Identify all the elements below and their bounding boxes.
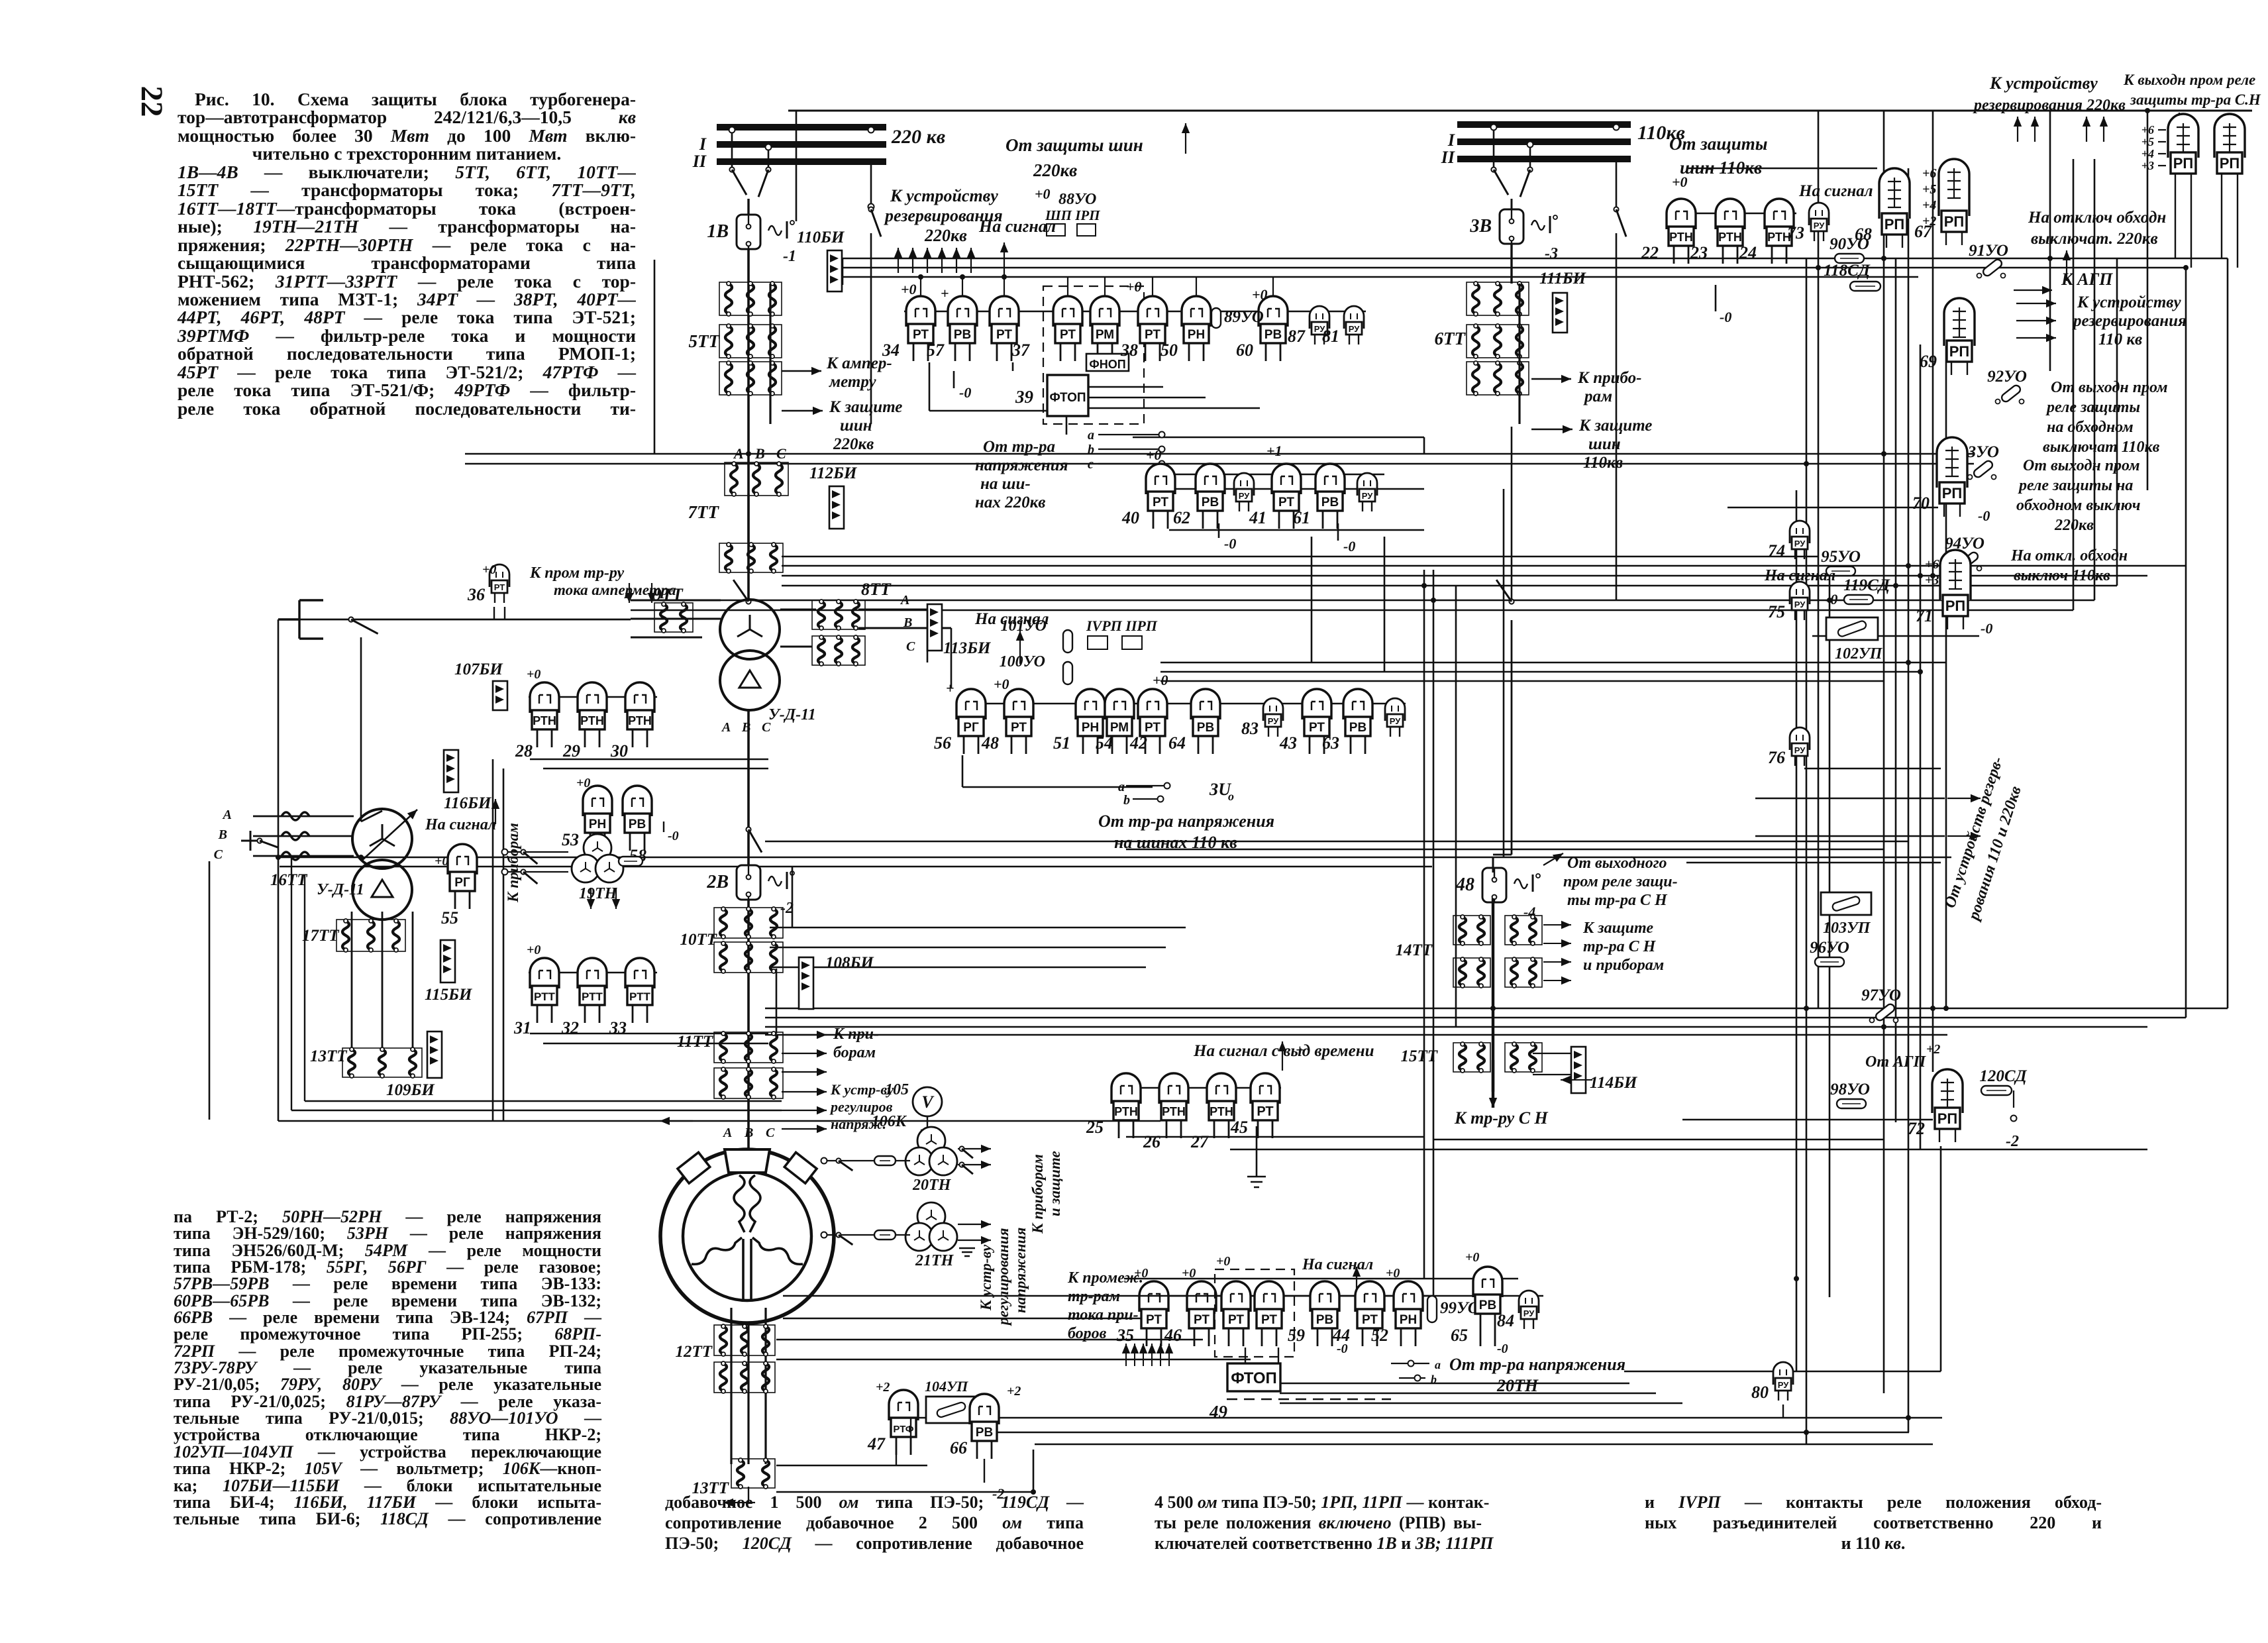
wire bus tap [1493,127,1495,167]
resistor 89УО 89УО [1211,308,1264,328]
svg-text:a: a [1118,780,1125,794]
disconnector below 6ТТ [1496,580,1514,604]
wire [788,110,2252,112]
relay 46РТ [1164,1281,1216,1346]
relay 50РН [1160,296,1211,361]
relay 69РП [1920,298,1975,375]
resistor [874,1156,896,1165]
arrow [1543,853,1563,865]
svg-text:+0: +0 [1153,672,1168,688]
svg-text:К промеж.: К промеж. [1067,1269,1143,1287]
arrow right [1543,921,1571,929]
svg-text:РТН: РТН [1162,1105,1186,1118]
svg-text:98УО: 98УО [1830,1081,1870,1098]
relay 28РТН [515,682,559,761]
resistor [619,857,643,866]
filter ФНОП ФНОП [1086,354,1129,371]
relay 74РУ [1768,521,1810,560]
svg-text:10ТТ: 10ТТ [680,931,717,949]
wire [1160,662,1946,664]
voltmeter 105V [913,1087,942,1116]
wire [769,284,771,424]
relay 53РН [562,786,612,851]
svg-text:К при-: К при- [833,1026,879,1043]
wire behind rtn22 row [1667,213,1796,214]
svg-text:120СД: 120СД [1979,1067,2027,1085]
wire vt21 chain [824,1234,910,1236]
svg-text:К защите: К защите [1578,417,1652,435]
relay 81РУ [1322,306,1364,346]
relay 68РП [1855,168,1910,248]
svg-text:52: 52 [1371,1326,1388,1345]
wire bus tap 1 [731,130,733,167]
svg-text:+0: +0 [901,281,917,297]
signal arrow [1000,242,1008,278]
vt taps [1391,1363,1429,1364]
circuit breaker 3В [1469,209,1557,244]
svg-text:110кв: 110кв [1583,454,1623,472]
svg-text:РТ: РТ [1060,328,1076,342]
svg-text:66: 66 [950,1438,967,1457]
svg-text:47: 47 [867,1434,886,1454]
arrow right [1543,939,1571,947]
svg-text:3В: 3В [1469,216,1492,237]
relay 34РТ [882,296,935,361]
svg-text:5ТТ: 5ТТ [689,331,721,351]
svg-text:73: 73 [1787,223,1804,242]
wire [1829,566,1831,1297]
wire [1012,362,1014,371]
arrow to bus protection [782,407,823,415]
arrow up [1122,1344,1130,1366]
arrow down [587,888,595,909]
arrow up [909,248,917,273]
svg-text:-0: -0 [1981,620,1992,637]
relay 59РВ [1288,1281,1339,1346]
svg-text:41: 41 [1249,508,1266,527]
arrow up [2031,117,2039,142]
current transformer 15ТТ a [1453,1042,1490,1073]
wire stub [1004,277,1005,296]
svg-text:220кв: 220кв [1033,160,1077,180]
test block 113БИ [927,604,992,657]
arrow up [938,248,946,273]
svg-text:+0: +0 [435,854,448,869]
svg-text:РТН: РТН [533,714,556,727]
svg-text:114БИ: 114БИ [1590,1074,1638,1092]
wire feeder 110 [1510,244,1512,284]
svg-text:ШП IРП: ШП IРП [1045,207,1100,223]
svg-text:96УО: 96УО [1810,939,1849,957]
svg-text:+0: +0 [1386,1266,1400,1281]
current transformer 17ТТ [336,919,405,952]
svg-text:17ТТ: 17ТТ [302,927,340,945]
test block 115БИ [425,940,473,1004]
svg-text:От тр-ра: От тр-ра [983,438,1055,456]
wire stub [1104,277,1106,296]
svg-text:РП: РП [1942,485,1963,502]
circuit breaker 48 [1455,868,1540,902]
current transformer 9ТТ [654,602,693,633]
svg-text:76: 76 [1768,748,1785,767]
wire [1686,862,1941,864]
wire [1518,284,1520,424]
arrow right [2016,334,2056,342]
svg-text:РВ: РВ [1321,496,1339,509]
svg-text:105: 105 [885,1081,909,1098]
arrow down [612,888,620,909]
arrow up [1157,1344,1164,1366]
svg-text:71: 71 [1916,606,1933,625]
wire [765,1034,1947,1036]
svg-text:РН: РН [589,818,606,831]
transformer 18ТТ side [352,809,412,920]
svg-text:+1: +1 [1266,443,1282,459]
svg-text:29: 29 [562,741,580,761]
svg-text:выключат. 220кв: выключат. 220кв [2031,230,2158,248]
wire rtt links [530,1033,768,1034]
switch 97УО 97УО [1861,986,1901,1023]
svg-text:-0: -0 [668,829,679,843]
relay 80РУ [1751,1362,1793,1402]
wire [1503,489,1505,857]
svg-text:48: 48 [981,733,999,753]
wire [770,927,1186,929]
svg-text:К устр-ву: К устр-ву [978,1244,994,1311]
svg-text:57: 57 [927,341,945,360]
svg-text:+4: +4 [1922,198,1936,213]
svg-text:РУ: РУ [1523,1308,1535,1318]
svg-text:108БИ: 108БИ [825,954,874,972]
resistor 90УО [1830,235,1869,263]
relay 73РУ [1787,203,1829,242]
relay 27РТН [1190,1073,1236,1151]
resistor [1063,662,1072,684]
svg-text:32: 32 [561,1018,579,1037]
svg-text:РВ: РВ [1479,1298,1496,1312]
svg-text:22: 22 [1641,243,1659,262]
wire feeder low [747,710,750,865]
wire [1947,1090,2028,1091]
current transformer 16ТТ [253,812,354,860]
arrow down [648,583,656,603]
arrow КАГП [2014,286,2052,294]
current transformer 14ТТ a [1453,915,1490,945]
relay 67РП [1914,159,1969,245]
svg-text:74: 74 [1768,541,1785,560]
svg-text:От защиты: От защиты [1669,134,1768,154]
wire [1160,671,1920,673]
svg-text:+0: +0 [1146,447,1162,463]
wire transformer down legs [351,912,353,1049]
wire [765,1008,2228,1010]
relay 38РТ [1120,296,1167,361]
wire [776,969,778,1033]
svg-text:24: 24 [1739,243,1757,262]
wire behind row4 [1139,1295,1543,1297]
svg-text:На откл. обходн: На откл. обходн [2010,547,2128,564]
svg-text:рам: рам [1583,388,1612,405]
svg-text:25: 25 [1086,1118,1104,1137]
svg-text:РУ: РУ [1239,491,1250,501]
svg-text:107БИ: 107БИ [454,661,503,678]
left blade [257,838,278,847]
svg-text:+: + [946,680,954,696]
svg-text:На сигнал: На сигнал [425,816,496,833]
relay 65РВ [1451,1267,1502,1346]
wire [770,947,1166,949]
disconnector below 5ТТ [733,580,751,604]
svg-text:ты тр-ра С Н: ты тр-ра С Н [1567,892,1668,909]
wire behind rtn25 row [1111,1087,1281,1088]
svg-text:РТН: РТН [1718,231,1742,244]
wire stub [2158,153,2166,154]
relay 32РТТ [561,958,607,1037]
relay 64РВ [1168,689,1220,754]
svg-text:РВ: РВ [1349,721,1366,735]
svg-text:РТН: РТН [580,714,604,727]
arrow right [2016,317,2056,325]
svg-text:60: 60 [1236,341,1253,360]
svg-text:К устройству: К устройству [2077,293,2181,311]
switch 94УО 94УО [1945,535,1984,571]
wire [1033,1450,1035,1492]
svg-text:51: 51 [1053,733,1070,753]
svg-text:РТ: РТ [1257,1104,1273,1119]
relay РТ [1255,1281,1284,1346]
relay 22РТН [1641,199,1696,264]
wire [291,1110,782,1111]
svg-text:боров: боров [1068,1325,1107,1342]
svg-text:С: С [906,639,915,654]
svg-text:+: + [1296,1041,1304,1058]
arrow up [1139,1344,1147,1366]
wire [1160,680,1884,682]
voltage transformer 21ТН [905,1202,957,1251]
wire [1883,111,1885,1393]
wire [1035,1444,1933,1446]
wire [1126,1136,1424,1138]
wire [1796,490,1798,1371]
disconnector above 2В [746,827,762,852]
current transformer 11ТТ a [714,1032,783,1063]
resistor 95УО [1821,548,1861,576]
svg-text:РП: РП [1937,1110,1958,1127]
svg-text:РП: РП [1945,598,1966,614]
svg-text:36: 36 [467,585,485,604]
svg-text:РТ: РТ [1278,496,1294,509]
relay 42РТ [1129,689,1167,754]
wire [1783,1371,1941,1373]
wire [2116,258,2118,586]
vt tap wire [1098,449,1162,450]
svg-text:-1: -1 [783,248,796,265]
relay 23РТН [1690,199,1745,264]
arrow up [2083,117,2090,142]
generator G [660,1149,834,1323]
arrow up [2175,113,2183,142]
relay 60РВ [1236,296,1288,361]
arrow up [894,248,902,273]
svg-text:15ТТ: 15ТТ [1400,1047,1438,1065]
disconnector switch [868,207,881,237]
svg-text:С: С [214,847,223,862]
wire [631,609,2073,611]
svg-text:46: 46 [1164,1326,1182,1345]
wire stub [1196,277,1197,296]
figure caption top-left [178,90,636,417]
caption block bottom-left [174,1208,601,1528]
svg-text:62: 62 [1173,508,1190,527]
wire [914,1417,1942,1419]
switching device 103УП [1821,892,1871,915]
wire [503,768,505,1121]
wire [747,494,749,543]
resistor 120СД [1979,1067,2027,1095]
wire ftop out [1088,386,1163,388]
current transformer 13ТТ left [342,1047,422,1078]
wire [929,362,931,411]
svg-text:РМ: РМ [1110,721,1129,735]
current transformer 14ТТ c [1453,957,1490,988]
svg-text:+0: +0 [994,676,1009,692]
wire [1755,798,1945,800]
relay РУ [1234,473,1254,511]
svg-text:-0: -0 [1826,591,1837,608]
wire [493,607,495,619]
wire bus tap 2 [768,147,770,167]
svg-text:на ши-: на ши- [980,475,1031,493]
wire [1624,1371,1773,1373]
wire [280,857,1951,859]
svg-text:40: 40 [1121,508,1139,527]
svg-text:А: А [733,445,744,462]
disconnector switch [758,167,771,197]
svg-text:220кв: 220кв [2054,517,2094,534]
wire rtn links [530,759,768,760]
wire [792,867,794,927]
wire vt19 switches [505,851,568,853]
current transformer 16ТТ built-in [719,543,783,573]
svg-text:шин: шин [840,417,872,435]
svg-text:11ТТ: 11ТТ [677,1033,714,1051]
test block 109БИ [386,1032,442,1099]
svg-text:РВ: РВ [976,1426,993,1440]
wire [782,556,1818,558]
svg-text:+0: +0 [527,667,541,682]
svg-text:a: a [1435,1358,1441,1371]
test block 116БИ [444,750,492,812]
svg-text:-0: -0 [1978,507,1990,524]
svg-text:+2: +2 [1922,214,1936,229]
svg-text:104УП: 104УП [925,1378,968,1395]
svg-text:защиты тр-ра С.Н: защиты тр-ра С.Н [2130,91,2261,108]
svg-text:на обходном: на обходном [2047,419,2134,436]
relay РП output b [2214,114,2245,187]
svg-text:13ТТ: 13ТТ [692,1479,729,1497]
svg-text:От выходн пром: От выходн пром [2023,457,2140,474]
resistor [874,1230,896,1240]
svg-text:+2: +2 [1926,1042,1940,1057]
wire [1682,1119,1933,1121]
svg-text:-2: -2 [2006,1133,2019,1150]
svg-text:А: А [722,1126,732,1140]
wire ftop out [1088,407,1260,409]
relay 26РТН [1143,1073,1188,1151]
svg-text:-0: -0 [959,384,971,401]
wire [1940,1146,1942,1371]
wire behind row3 [956,703,1406,704]
filter ФТОП 2 ФТОП [1227,1363,1280,1391]
disconnector switch [1491,167,1508,195]
wire [654,260,656,454]
wire [1218,523,1220,538]
arrow up [2100,117,2108,142]
voltage transformer 19ТН [572,834,623,882]
svg-text:ФТОП: ФТОП [1049,391,1086,405]
svg-text:и защите: и защите [1047,1151,1063,1216]
svg-text:РТ: РТ [1146,1313,1162,1327]
svg-text:РУ: РУ [1778,1380,1789,1390]
svg-text:РН: РН [1188,328,1205,342]
current transformer 12ТТ a [714,1324,775,1356]
svg-text:V: V [921,1092,935,1112]
wire [360,637,362,821]
svg-text:55: 55 [441,908,458,927]
relay 47РТФ [867,1390,918,1455]
svg-text:89УО: 89УО [1224,308,1264,326]
wire [1511,199,1513,211]
relay 61РВ [1293,464,1345,529]
wire [765,1017,2186,1019]
svg-text:шин: шин [1588,435,1621,453]
relay 30РТН [610,682,654,761]
svg-text:53: 53 [562,830,579,849]
relay 37РТ [990,296,1030,361]
svg-text:b: b [1123,793,1130,808]
svg-text:РВ: РВ [629,818,646,831]
current transformer 13ТТ lower [731,1458,775,1489]
svg-text:РГ: РГ [963,721,979,735]
wire [1932,111,1934,1072]
wire [2237,187,2238,268]
wire [910,1418,911,1455]
svg-text:РТН: РТН [1114,1105,1138,1118]
relay 70РП [1912,437,1967,517]
arrow up [1165,1344,1173,1366]
svg-text:В: В [754,445,765,462]
svg-text:и приборам: и приборам [1583,957,1664,974]
svg-text:97УО: 97УО [1861,986,1901,1004]
wire [1126,849,1884,851]
wire [2221,187,2222,258]
svg-text:28: 28 [515,741,533,761]
signal arrow [491,799,499,824]
test block 111БИ [1539,270,1587,333]
wire [1124,1278,1518,1280]
svg-text:РГ: РГ [454,876,470,890]
wire [896,1455,897,1465]
wire [843,258,2228,260]
wire [1245,1348,1246,1363]
wire [1423,570,1425,1279]
svg-text:+0: +0 [1216,1254,1230,1269]
busbar 220kV [717,127,886,162]
svg-text:ФНОП: ФНОП [1089,358,1125,371]
svg-text:+0: +0 [1134,1266,1148,1281]
svg-text:РТТ: РТТ [629,990,650,1003]
svg-text:b: b [1088,443,1094,457]
